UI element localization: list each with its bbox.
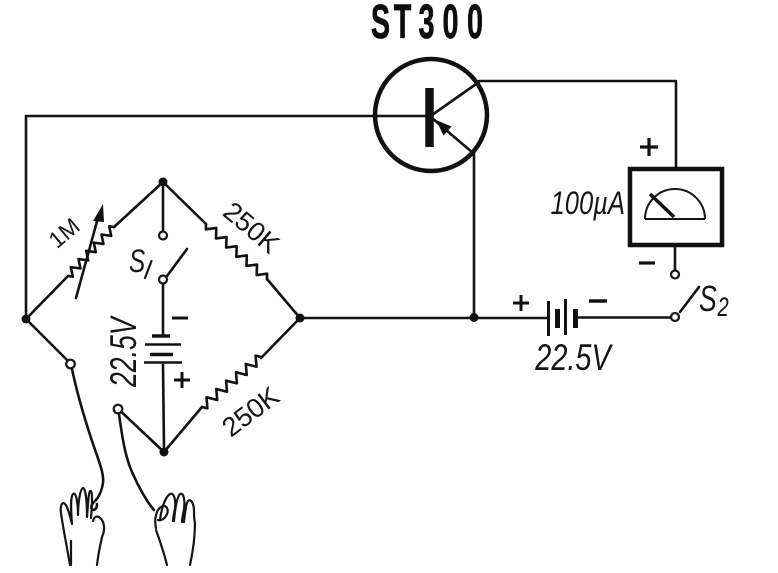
svg-text:T: T (394, 0, 412, 49)
node bridge right (296, 314, 305, 323)
meter plus label (640, 138, 658, 156)
wire meter to terminal (674, 245, 677, 270)
wire bottom-left arm upper (26, 319, 67, 360)
wire pointer curve left (72, 369, 103, 510)
resistor R3 250K bottom right (164, 318, 300, 452)
svg-text:S: S (129, 244, 145, 280)
wire bottom-left arm lower (122, 412, 165, 452)
battery B1 minus label (172, 317, 188, 320)
hand left (61, 488, 104, 565)
node bridge bottom (160, 448, 169, 457)
node bridge left (22, 315, 31, 324)
node emitter junction (470, 313, 479, 322)
svg-text:22.5V: 22.5V (534, 338, 613, 379)
node bridge top (159, 178, 168, 187)
node meter terminal (671, 271, 679, 279)
svg-text:3: 3 (418, 0, 434, 49)
svg-text:S: S (699, 278, 717, 319)
wire base lead (26, 116, 425, 316)
hand right (155, 494, 195, 565)
svg-text:0: 0 (467, 0, 483, 49)
wire battery B1 to bottom node (163, 365, 164, 448)
switch S2 (671, 287, 699, 321)
battery B1 plus label (174, 372, 190, 388)
wire pointer curve right (119, 414, 154, 510)
battery B2 22.5V (549, 299, 576, 336)
svg-text:S: S (371, 0, 390, 49)
svg-text:2: 2 (717, 292, 729, 323)
wire right battery to S2 (578, 316, 671, 319)
battery B1 22.5V (144, 336, 182, 363)
transistor Q1 label ST300 (371, 0, 483, 49)
wire bridge right node to battery (300, 317, 547, 320)
meter M1 100uA (630, 169, 722, 245)
wire top node to S1 (162, 186, 165, 231)
node touch terminal left (66, 360, 75, 369)
wire collector to meter (479, 81, 676, 169)
transistor Q1 (375, 59, 487, 171)
battery B2 minus label (589, 299, 607, 303)
battery B2 plus label (513, 295, 529, 311)
wire emitter down (473, 153, 476, 317)
meter minus label (639, 261, 655, 264)
svg-text:0: 0 (442, 0, 458, 49)
switch S1 (159, 232, 187, 284)
node touch terminal right (114, 405, 123, 414)
resistor R2 250K top right (163, 182, 300, 318)
wire S1 to battery B1 (162, 284, 165, 334)
resistor R1 1M variable (26, 182, 163, 319)
svg-text:100µA: 100µA (550, 186, 625, 221)
svg-text:22.5V: 22.5V (103, 315, 144, 387)
